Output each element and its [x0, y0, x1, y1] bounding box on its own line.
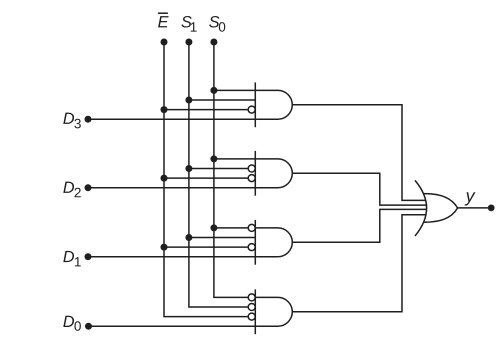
wire U2 output to OR input 2: [292, 173, 427, 205]
junction E-bar / U1: [161, 106, 168, 113]
OR gate U5 body: [423, 194, 457, 223]
AND gate U3 (D1): [255, 220, 292, 265]
wire S1 to U2 pin2: [189, 168, 248, 170]
bubble U4 pin1: [248, 294, 255, 301]
wire S1 to U1 pin2: [189, 99, 255, 101]
bubble U3 pin3: [248, 244, 255, 251]
wire output y: [458, 207, 492, 209]
node D2 terminal: [85, 184, 92, 191]
wire E-bar to U3 pin3: [164, 246, 248, 248]
node D3 terminal: [85, 116, 92, 123]
wire S0 vertical with elbow to U4: [214, 42, 248, 297]
wire E-bar to U2 pin3: [164, 177, 248, 179]
label E-bar: [158, 16, 169, 27]
junction E-bar / U2: [161, 175, 168, 182]
node S1 terminal: [185, 39, 192, 46]
node D0 terminal: [85, 323, 92, 330]
junction S0 / U2: [210, 155, 217, 162]
AND gate U2 (D2): [255, 151, 292, 196]
label D3: [63, 113, 81, 129]
OR gate U5 input arc: [415, 180, 427, 236]
wire E-bar to U1 pin3: [164, 109, 248, 111]
wire S1 to U3 pin2: [189, 237, 255, 239]
bubble U4 pin2: [248, 304, 255, 311]
bubble U3 pin1: [248, 224, 255, 231]
junction S0 / U3: [210, 224, 217, 231]
label D1: [63, 251, 80, 267]
wire U4 output to OR input 4: [292, 215, 426, 312]
wire D3: [88, 118, 255, 120]
wire D2: [88, 187, 255, 189]
junction S0 / U1: [210, 87, 217, 94]
node y terminal: [488, 205, 495, 212]
junction S1 / U1: [185, 97, 192, 104]
node D1 terminal: [85, 253, 92, 260]
bubble U2 pin3: [248, 175, 255, 182]
wire U1 output to OR input 1: [292, 105, 426, 201]
label S0: [209, 16, 225, 32]
bubble U4 pin3: [248, 313, 255, 320]
bubble U1 pin3: [248, 106, 255, 113]
label y: [465, 192, 476, 205]
wire S1 vertical with elbow to U4: [189, 42, 248, 307]
wire D0: [89, 325, 256, 327]
wire S0 to U2 pin1: [214, 158, 255, 160]
junction E-bar / U3: [161, 244, 168, 251]
junction S1 / U3: [185, 234, 192, 241]
wire U3 output to OR input 3: [292, 209, 427, 242]
label D0: [63, 316, 81, 331]
wire S0 to U1 pin1: [214, 89, 255, 91]
wire D1: [88, 256, 255, 258]
junction S1 / U2: [185, 165, 192, 172]
node S0 terminal: [210, 39, 217, 46]
label S1: [181, 16, 196, 32]
wire E-bar vertical with elbow to U4: [164, 42, 248, 317]
label D2: [63, 182, 80, 198]
AND gate U4 (D0): [255, 289, 292, 334]
bubble U2 pin2: [248, 165, 255, 172]
overbar of E: [158, 12, 168, 14]
AND gate U1 (D3): [255, 82, 292, 127]
wire S0 to U3 pin1: [214, 227, 248, 229]
node E-bar terminal: [161, 39, 168, 46]
